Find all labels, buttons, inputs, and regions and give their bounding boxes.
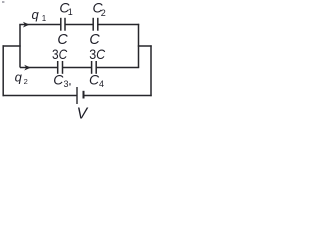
svg-text:4: 4 [99, 79, 104, 89]
capacitor C4 plates [91, 61, 93, 74]
wire: right outer vertical down to battery line [150, 45, 152, 96]
svg-text:2: 2 [101, 8, 106, 18]
battery plate long (left, +) [76, 87, 78, 104]
svg-text:V: V [77, 105, 89, 121]
wire: middle branch from left corner to C3 [20, 67, 58, 69]
svg-text:3: 3 [64, 79, 69, 89]
wire: right connector horizontal (inner node to outer) [138, 45, 152, 47]
svg-text:2: 2 [24, 77, 28, 86]
arrow q2 (current direction middle branch) [24, 65, 31, 71]
wire: bottom left segment to battery [3, 95, 77, 97]
wire: inner left vertical (node between q1 and q2 branches) [19, 25, 21, 68]
svg-text:1: 1 [42, 14, 47, 23]
svg-text:q: q [15, 70, 23, 85]
wire: inner right vertical [138, 24, 140, 68]
wire: left outer vertical down to battery line [2, 45, 4, 96]
battery plate short (right, -) [83, 91, 85, 99]
arrow q1 (current direction top branch) [23, 22, 30, 28]
svg-text:1: 1 [68, 7, 73, 17]
svg-text:q: q [32, 7, 40, 22]
stray comma after C3 [69, 83, 71, 85]
wire: middle branch between C3 and C4 [63, 67, 92, 69]
wire: left connector horizontal (outer to inner node) [3, 45, 21, 47]
capacitor C3 plates [57, 61, 59, 74]
svg-text:3C: 3C [52, 46, 68, 62]
capacitor C2 plates [92, 18, 94, 31]
svg-text:3C: 3C [89, 46, 106, 62]
wire: top branch from C2 to right inner corner [98, 24, 139, 26]
wire: top branch from left corner to C1 [19, 24, 60, 26]
wire: bottom right segment from battery [84, 95, 152, 97]
wire: top branch between C1 and C2 [65, 24, 93, 26]
stray mark top-left [2, 1, 4, 2]
capacitor C1 plates [60, 18, 62, 31]
wire: middle branch from C4 to right inner vertical [96, 67, 139, 69]
